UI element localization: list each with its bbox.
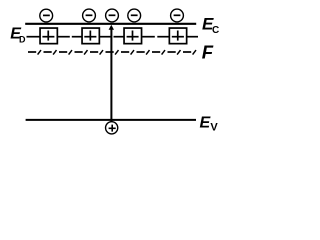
label Ev [200,115,219,134]
generation arrow shaft (hole to conduction band) [110,27,112,122]
donor level dash wires between box 3 and box 4 [142,36,169,38]
Fermi level F dash-slash line [28,50,196,55]
generation arrow head [109,25,114,30]
ionized donor box 1 (boxed plus) [40,28,57,44]
svg-text:V: V [210,122,218,134]
label Ec [202,14,219,35]
ionized donor box 3 (boxed plus) [124,28,142,44]
electron 5 (circled minus) [171,9,184,22]
electron 1 (circled minus) [40,9,53,22]
donor level ED connector wire from label to box 1 [27,36,40,38]
electron 3 (circled minus, above generation arrow) [106,9,119,22]
donor level dash wire right of box 4 [187,36,198,38]
electron 2 (circled minus) [83,9,96,22]
valence band edge line Ev [26,119,196,121]
ionized donor box 2 (boxed plus) [82,28,99,44]
label ED [10,26,26,45]
svg-text:C: C [212,25,219,36]
svg-text:D: D [19,35,26,45]
ionized donor box 4 (boxed plus) [169,28,186,44]
electron 4 (circled minus) [128,9,141,22]
hole (circled plus) below Ev [106,122,118,134]
svg-text:F: F [202,41,214,62]
donor level dash wires between box 2 and box 3 [100,36,124,38]
conduction band edge line Ec [25,23,196,25]
label F [202,41,214,62]
donor level dash wires between box 1 and box 2 [58,36,82,38]
